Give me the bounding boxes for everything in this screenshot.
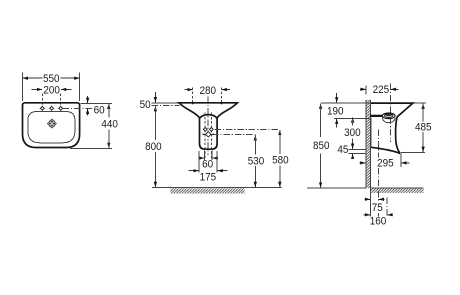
svg-text:225: 225 <box>373 85 390 97</box>
svg-text:300: 300 <box>344 127 361 139</box>
svg-text:60: 60 <box>202 159 213 171</box>
svg-text:60: 60 <box>94 105 105 117</box>
svg-text:280: 280 <box>200 85 217 97</box>
svg-text:160: 160 <box>370 216 387 228</box>
svg-text:75: 75 <box>372 203 383 215</box>
svg-text:580: 580 <box>272 155 289 167</box>
svg-text:295: 295 <box>377 158 394 170</box>
svg-text:530: 530 <box>248 156 265 168</box>
svg-text:200: 200 <box>43 85 60 97</box>
svg-text:550: 550 <box>43 73 60 85</box>
svg-text:440: 440 <box>101 119 118 131</box>
svg-text:45: 45 <box>337 145 348 157</box>
svg-text:850: 850 <box>313 141 330 153</box>
svg-text:50: 50 <box>140 100 151 112</box>
svg-text:800: 800 <box>145 141 162 153</box>
svg-text:175: 175 <box>200 172 217 184</box>
svg-text:190: 190 <box>327 106 344 118</box>
svg-text:485: 485 <box>415 122 432 134</box>
